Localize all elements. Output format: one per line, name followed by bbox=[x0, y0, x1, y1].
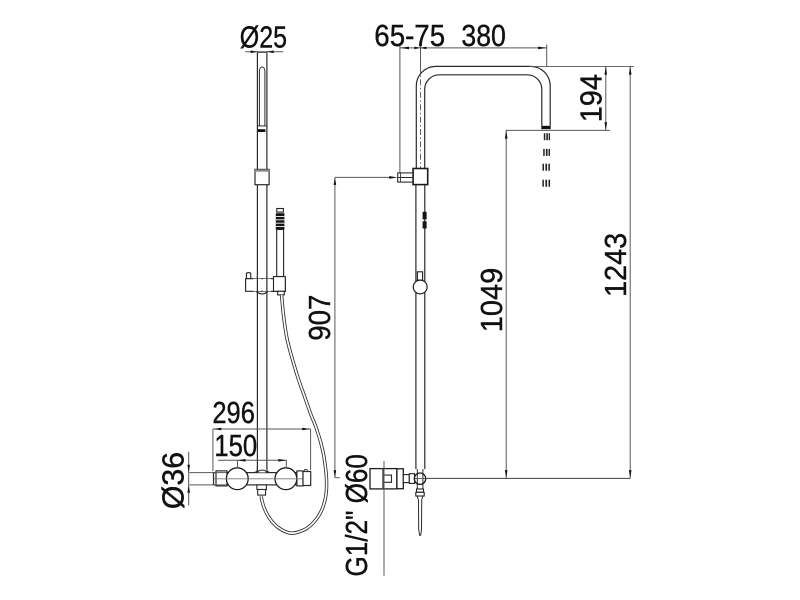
svg-text:Ø25: Ø25 bbox=[240, 21, 287, 55]
spray dashes group 2 bbox=[543, 149, 545, 156]
extension Ø36 bottom bbox=[190, 484, 227, 486]
handle end stub below cup bbox=[278, 291, 285, 295]
valve neck bbox=[417, 469, 423, 489]
hand shower striped grip bbox=[276, 213, 285, 229]
wall bracket arm bbox=[398, 173, 413, 182]
extension 296 right bbox=[310, 429, 312, 470]
svg-text:380: 380 bbox=[461, 19, 506, 53]
lever handle bbox=[419, 500, 422, 536]
dimension 194 line bbox=[605, 66, 607, 130]
valve baseline extension bbox=[426, 477, 631, 479]
hand shower handle bbox=[277, 230, 284, 277]
hand shower top cap bbox=[277, 209, 284, 213]
extension line wall-pipe center bbox=[420, 45, 422, 68]
extension 296 left bbox=[212, 429, 214, 471]
svg-text:G1/2" Ø60: G1/2" Ø60 bbox=[340, 454, 374, 576]
lever collar 2 bbox=[416, 492, 424, 496]
riser pipe (side view) bbox=[416, 185, 425, 469]
pipe collar block bbox=[413, 169, 428, 185]
svg-text:Ø36: Ø36 bbox=[157, 452, 191, 509]
dimension 1243 line bbox=[629, 66, 631, 478]
svg-text:296: 296 bbox=[212, 396, 255, 430]
dimension 907 line bbox=[334, 177, 336, 477]
slider block top band bbox=[255, 169, 269, 171]
dimension 296 line bbox=[213, 428, 311, 430]
svg-text:150: 150 bbox=[214, 429, 257, 463]
slider knob stem (side view) bbox=[417, 272, 422, 280]
dimension 150 line bbox=[218, 459, 287, 461]
spray-face extension line bbox=[506, 129, 611, 131]
svg-text:1049: 1049 bbox=[475, 268, 509, 333]
shower arm arch inner contour bbox=[425, 75, 542, 169]
riser pipe top edge bbox=[257, 51, 267, 53]
mixer left collar bbox=[216, 471, 227, 486]
extension 150 right bbox=[285, 460, 287, 468]
svg-text:65-75: 65-75 bbox=[374, 19, 445, 53]
tube junction separator line bbox=[257, 125, 267, 127]
extension line arm right bbox=[546, 45, 548, 67]
svg-text:194: 194 bbox=[575, 74, 609, 122]
left knob bbox=[226, 468, 248, 490]
valve ball joint bbox=[414, 473, 425, 484]
extension 150 left bbox=[237, 460, 239, 468]
overhead shower head face bbox=[541, 126, 550, 129]
valve coupling 2 bbox=[409, 474, 414, 484]
mixer outlet nut bbox=[258, 490, 266, 496]
mixer bar body bbox=[214, 473, 303, 485]
lever collar 1 bbox=[417, 489, 424, 492]
mixer right end piece bbox=[303, 472, 311, 486]
spray dashes group 4 bbox=[542, 180, 544, 187]
slider knob ball (side view) bbox=[413, 280, 427, 294]
holder main block bbox=[246, 279, 286, 292]
dimension 1049 line bbox=[505, 130, 507, 478]
dimension 907 bottom tick bbox=[335, 477, 340, 479]
arch top extension to 1243 bbox=[529, 65, 634, 67]
wall line bbox=[399, 46, 401, 173]
mixer right collar bbox=[297, 471, 303, 486]
valve coupling 1 bbox=[403, 475, 409, 483]
holder under-bulge below pipe bbox=[256, 291, 268, 294]
dimension Ø36 line bbox=[188, 452, 190, 506]
valve end cap bbox=[397, 469, 403, 489]
valve axis line bbox=[404, 478, 630, 480]
dimension Ø25 line bbox=[245, 51, 283, 53]
right knob bbox=[275, 468, 297, 490]
svg-text:907: 907 bbox=[303, 295, 337, 341]
slider block bbox=[255, 169, 269, 184]
mixer outlet block bbox=[257, 485, 267, 490]
inner upper tube with domed top bbox=[259, 67, 265, 126]
pipe passing through holder bbox=[257, 279, 267, 292]
extension Ø36 top bbox=[190, 472, 227, 474]
dimension 65-75 / 380 line bbox=[400, 47, 547, 49]
holder lever bbox=[246, 273, 250, 279]
valve body bbox=[370, 469, 397, 489]
holder handle cup bbox=[274, 277, 286, 292]
diverter black dashes bbox=[423, 212, 427, 220]
shower arm arch outer contour bbox=[416, 66, 550, 168]
pipe into mixer white cover bbox=[258, 466, 266, 472]
valve internal stem bbox=[384, 475, 391, 482]
pipe base dome bbox=[258, 470, 267, 472]
pipe centerline dash-dot bbox=[420, 67, 422, 168]
shower hose bbox=[261, 295, 326, 533]
lever taper bbox=[417, 496, 423, 500]
tube junction black band bbox=[258, 129, 266, 132]
dimension 907 extension to bracket bbox=[335, 176, 390, 178]
riser pipe (left view) bbox=[257, 52, 267, 472]
mixer mid seam line bbox=[214, 478, 303, 480]
leader line G1/2 Ø60 bbox=[383, 461, 385, 576]
pipe base flare arcs bbox=[254, 466, 270, 472]
spray dashes group 1 bbox=[542, 133, 550, 187]
svg-text:1243: 1243 bbox=[599, 233, 633, 297]
valve internal divider bbox=[382, 469, 384, 489]
mixer right end stub bbox=[305, 470, 308, 472]
spray dashes group 3 bbox=[543, 164, 545, 171]
